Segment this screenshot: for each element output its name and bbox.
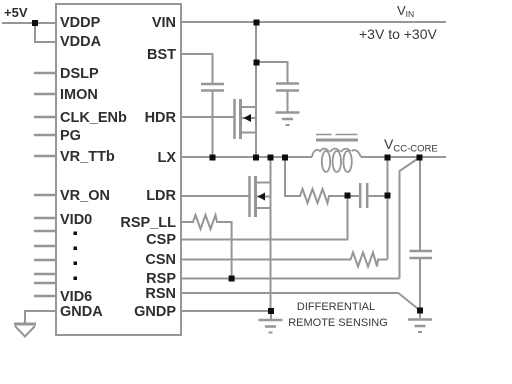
- IC U1 body: [56, 4, 181, 335]
- transistor Q2 low-side MOSFET: [250, 176, 271, 217]
- node LX bootstrap junction: [210, 155, 216, 161]
- wire PG stub: [34, 134, 56, 136]
- wire VID6 stub: [34, 295, 56, 297]
- wire output cap drop: [419, 157, 421, 251]
- wire HDR to gate Q1: [181, 116, 234, 118]
- wire CSN resistor to vout: [379, 259, 388, 261]
- wire RSN sense diagonal: [398, 293, 420, 311]
- svg-text:CLK_ENb: CLK_ENb: [60, 110, 127, 126]
- node VIN rail junction: [254, 20, 260, 26]
- ground GNDP power: [259, 320, 283, 333]
- transistor Q1 high-side MOSFET: [235, 99, 256, 139]
- wire BST to bootstrap cap: [181, 54, 213, 84]
- capacitor C3 DCR sense: [360, 183, 367, 208]
- wire VID4 stub: [34, 273, 56, 275]
- wire IMON stub: [34, 93, 56, 95]
- svg-text:VR_TTb: VR_TTb: [60, 149, 115, 165]
- wire VDDA branch: [35, 23, 56, 42]
- node vout sense junction: [417, 155, 423, 161]
- wire RSP_LL resistor to RSP: [218, 222, 232, 279]
- ground input cap: [276, 113, 300, 126]
- wire bootstrap cap to LX: [212, 91, 214, 157]
- wire VID3 stub: [34, 259, 56, 261]
- wire CSP sense vertical: [181, 196, 348, 240]
- wire input cap to ground: [287, 91, 289, 112]
- node +5V/VDDA junction: [32, 20, 38, 26]
- node vout CSN junction: [385, 155, 391, 161]
- resistor R3 CSN: [348, 253, 379, 267]
- svg-text:GNDA: GNDA: [60, 304, 103, 320]
- svg-text:DIFFERENTIAL: DIFFERENTIAL: [297, 301, 375, 313]
- capacitor C2 input: [276, 84, 299, 91]
- wire LDR to gate Q2: [181, 195, 249, 197]
- wire RSP line: [181, 278, 400, 280]
- node LX Q1 source junction: [253, 155, 259, 161]
- svg-text:+3V to +30V: +3V to +30V: [359, 26, 438, 42]
- svg-text:DSLP: DSLP: [60, 66, 99, 82]
- ground GNDA analog: [14, 324, 36, 337]
- svg-text:GNDP: GNDP: [134, 304, 176, 320]
- svg-text:CSN: CSN: [145, 252, 176, 268]
- wire VID5 stub: [34, 282, 56, 284]
- wire VR_TTb stub: [34, 155, 56, 157]
- svg-text:RSN: RSN: [145, 286, 176, 302]
- wire GNDP ground drop: [270, 311, 272, 319]
- svg-text:+5V: +5V: [4, 5, 28, 20]
- wire DSLP stub: [34, 72, 56, 74]
- svg-text:VIN: VIN: [397, 3, 414, 19]
- svg-text:BST: BST: [147, 47, 176, 63]
- svg-text:VR_ON: VR_ON: [60, 188, 110, 204]
- wire GNDA to ground: [25, 311, 56, 323]
- node input cap branch junction: [254, 60, 260, 66]
- inductor core bars: [316, 134, 332, 136]
- node R-C CSP junction: [345, 193, 351, 199]
- ground output: [408, 320, 432, 333]
- svg-text:VDDP: VDDP: [60, 15, 101, 31]
- wire VIN rail top: [181, 21, 446, 23]
- wire RSP_LL pin: [181, 221, 191, 223]
- svg-text:LX: LX: [157, 150, 176, 166]
- node cap vout junction: [385, 193, 391, 199]
- wire cap to vout vertical link: [367, 195, 387, 197]
- svg-text:VID0: VID0: [60, 212, 92, 228]
- node GNDP ground junction: [268, 308, 274, 314]
- VID ellipsis dots: [74, 232, 78, 236]
- wire VID2 stub: [34, 245, 56, 247]
- wire R-C link: [330, 195, 360, 197]
- svg-text:CSP: CSP: [146, 232, 176, 248]
- capacitor C4 output: [410, 251, 433, 258]
- node RSP_LL RSP junction: [229, 276, 235, 282]
- svg-text:RSP: RSP: [146, 271, 176, 287]
- wire input cap branch: [256, 62, 288, 83]
- wire Q2 drain-source vertical: [270, 157, 272, 311]
- svg-text:VDDA: VDDA: [60, 34, 102, 50]
- svg-text:VCC-CORE: VCC-CORE: [384, 136, 438, 155]
- wire LX line: [181, 156, 312, 158]
- svg-text:IMON: IMON: [60, 87, 98, 103]
- resistor R1 snubber/DCR: [298, 189, 330, 203]
- wire VID0 stub: [34, 217, 56, 219]
- wire GNDP line: [181, 310, 271, 312]
- svg-text:PG: PG: [60, 128, 81, 144]
- node LX Q2 drain junction: [268, 155, 274, 161]
- wire vout vertical to CSN: [387, 157, 389, 260]
- wire RSP sense up: [400, 158, 420, 279]
- wire CLK_ENb stub: [34, 116, 56, 118]
- wire CSN line: [181, 259, 348, 261]
- wire VR_ON stub: [34, 194, 56, 196]
- svg-text:RSP_LL: RSP_LL: [120, 215, 176, 231]
- svg-text:HDR: HDR: [145, 110, 177, 126]
- svg-text:REMOTE SENSING: REMOTE SENSING: [288, 317, 388, 329]
- wire VIN vertical to FET drain: [255, 22, 257, 157]
- svg-text:VIN: VIN: [152, 15, 176, 31]
- wire output line: [361, 156, 446, 158]
- wire RSN line: [181, 292, 398, 294]
- wire VID1 stub: [34, 230, 56, 232]
- svg-text:LDR: LDR: [146, 188, 176, 204]
- wire +5V rail: [2, 22, 56, 24]
- resistor R2 RSP_LL: [191, 215, 218, 229]
- svg-text:VID6: VID6: [60, 289, 92, 305]
- node LX snubber junction: [282, 155, 288, 161]
- capacitor C1 bootstrap: [201, 84, 224, 91]
- wire snubber branch from LX: [285, 157, 299, 196]
- inductor L1: [312, 135, 361, 173]
- node output ground junction: [417, 308, 423, 314]
- wire output cap to ground: [419, 258, 421, 318]
